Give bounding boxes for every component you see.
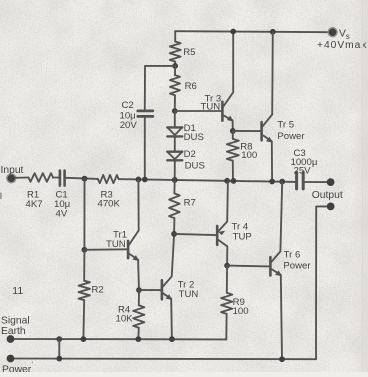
node R7 Tr2 collector Tr4 base	[171, 231, 177, 237]
resistor R6	[174, 66, 176, 75]
ground terminal signal earth	[7, 335, 15, 343]
transistor Tr6 Power	[270, 182, 282, 360]
svg-text:C2: C2	[122, 100, 134, 111]
svg-text:100: 100	[241, 150, 257, 161]
wire Tr5 base	[233, 130, 261, 132]
svg-text:11: 11	[12, 285, 23, 297]
wire C2 branch	[145, 66, 175, 109]
node Tr6 emitter power	[279, 356, 285, 362]
node mid rail Tr6 collector	[279, 179, 285, 185]
wire Tr6 base	[227, 265, 269, 268]
output terminal return	[327, 203, 335, 211]
wire input to R1	[15, 177, 28, 179]
resistor R8	[232, 131, 234, 139]
input terminal	[7, 174, 15, 182]
svg-text:470K: 470K	[98, 199, 121, 210]
svg-text:100: 100	[233, 306, 249, 317]
resistor R4 10K	[138, 290, 140, 305]
wire earth-power link	[58, 339, 60, 359]
node mid rail diodes R7	[172, 177, 178, 183]
node mid rail Tr1 collector	[136, 177, 142, 183]
node C1-R3-R2 junction	[82, 176, 88, 182]
wire R1 to C1	[53, 177, 59, 179]
wire Tr2 base	[139, 289, 161, 291]
capacitor C3 1000u	[295, 172, 298, 189]
capacitor C1 10u	[59, 171, 62, 186]
svg-text:Signal: Signal	[1, 315, 30, 326]
svg-text:DUS: DUS	[184, 132, 204, 143]
wire Tr3 base	[175, 110, 221, 112]
wire power rail	[11, 358, 317, 361]
resistor R9 100	[226, 266, 228, 293]
svg-text:Tr 5: Tr 5	[277, 120, 294, 131]
wire C3 to output	[305, 181, 327, 183]
capacitor C2	[138, 110, 153, 113]
output terminal plus	[327, 178, 335, 186]
svg-text:': '	[32, 362, 33, 369]
wire R2 column	[83, 179, 85, 250]
svg-text:TUN: TUN	[106, 239, 126, 250]
svg-text:4K7: 4K7	[26, 199, 43, 210]
svg-text:Power: Power	[2, 364, 32, 372]
wire signal earth rail	[11, 338, 227, 340]
node R6-D1-Tr3 junction	[172, 108, 178, 114]
wire C2 to mid rail	[144, 118, 146, 180]
node R5-R6 junction	[172, 63, 178, 69]
resistor R1 4K7	[29, 173, 54, 182]
svg-text:Earth: Earth	[1, 326, 26, 337]
transistor Tr1 TUN	[128, 179, 139, 290]
wire top supply rail	[175, 31, 332, 32]
diode D1 DUS	[167, 127, 182, 136]
svg-text:TUN: TUN	[179, 289, 199, 300]
node mid rail R8	[231, 178, 237, 184]
wire Tr1 base	[84, 248, 127, 251]
diode D2 DUS	[167, 152, 182, 161]
svg-text:4V: 4V	[56, 209, 68, 220]
node Tr1 emitter R4 Tr2 base	[136, 287, 142, 293]
node mid rail C2	[142, 177, 148, 183]
node mid rail Tr5 emitter	[269, 179, 275, 185]
node earth link	[56, 336, 62, 342]
svg-text:25V: 25V	[294, 165, 312, 176]
svg-text:R6: R6	[185, 81, 197, 92]
wire D2 to mid rail	[174, 162, 176, 180]
node top rail Tr5 collector	[270, 29, 276, 35]
node R2 earth	[81, 336, 87, 342]
resistor R3 470K	[98, 175, 119, 183]
svg-text:Power: Power	[277, 131, 305, 142]
svg-text:Output: Output	[312, 190, 343, 201]
wire output return	[316, 206, 327, 359]
resistor R7	[173, 180, 175, 194]
svg-text:R7: R7	[184, 197, 196, 208]
wire mid rail	[119, 179, 295, 182]
wire Tr4 base	[174, 234, 216, 235]
node Tr1 base R2 junction	[82, 247, 88, 253]
supply terminal Vs	[329, 28, 337, 36]
svg-text:20V: 20V	[120, 120, 138, 131]
svg-text:DUS: DUS	[185, 160, 205, 171]
svg-text:10K: 10K	[116, 313, 134, 324]
transistor Tr3 TUN	[222, 31, 233, 130]
wire D1 to D2	[174, 112, 176, 126]
transistor Tr5 Power	[262, 32, 273, 182]
svg-text:R5: R5	[183, 47, 195, 58]
node R4 earth	[135, 336, 141, 342]
resistor R2	[83, 250, 85, 281]
node Tr3 emitter R8 Tr5 base	[230, 128, 236, 134]
node link power	[56, 356, 62, 362]
node Tr2 emitter earth	[169, 336, 175, 342]
wire C1 to R3	[66, 178, 98, 179]
transistor Tr4 TUP	[217, 181, 228, 266]
node Tr4 collector R9 Tr6 base	[224, 263, 230, 269]
ground terminal power	[7, 355, 15, 363]
svg-text:D2: D2	[184, 149, 196, 160]
svg-text:+40Vmax: +40Vmax	[317, 40, 367, 51]
svg-text:TUN: TUN	[201, 101, 221, 112]
svg-text:R2: R2	[92, 284, 104, 295]
svg-text:Tr 6: Tr 6	[284, 249, 301, 260]
transistor Tr2 TUN	[162, 234, 174, 339]
node top rail Tr3 collector	[230, 29, 236, 35]
svg-text:Power: Power	[283, 261, 311, 272]
resistor R5	[174, 31, 176, 41]
node mid rail Tr4 emitter	[224, 178, 230, 184]
svg-text:Input: Input	[1, 165, 24, 176]
svg-text:TUP: TUP	[233, 231, 252, 242]
